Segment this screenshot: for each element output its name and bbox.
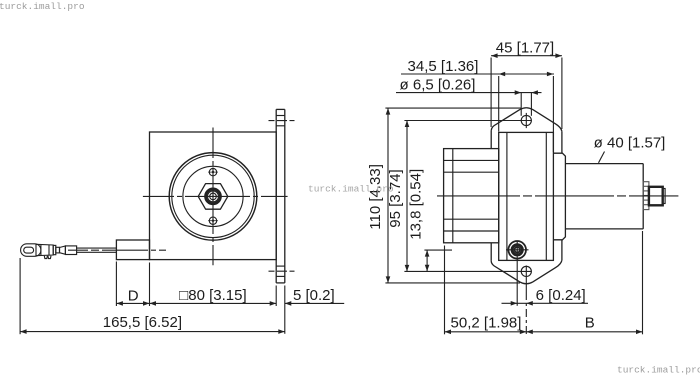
svg-text:□80 [3.15]: □80 [3.15] [179,287,246,304]
front view: drum cover inner circle [183,166,243,226]
dimension 45 [1.77] [491,40,562,130]
svg-text:ø 40 [1.57]: ø 40 [1.57] [594,135,666,152]
svg-text:34,5 [1.36]: 34,5 [1.36] [408,58,479,75]
dimension diameter 6,5 [0.26] [396,76,542,115]
side view: clamp plate [553,153,565,240]
svg-text:110 [4.33]: 110 [4.33] [367,164,384,230]
front view: rope swivel and cone [53,245,65,254]
svg-text:ø 6,5 [0.26]: ø 6,5 [0.26] [400,76,476,93]
dimension D [116,262,149,307]
svg-text:turck.imall.pro: turck.imall.pro [0,1,85,12]
dimension square 80 [150,286,277,307]
front view: vertical center line [212,128,214,266]
svg-text:13,8 [0.54]: 13,8 [0.54] [408,169,425,240]
front view: drum cover outer circles [169,153,257,241]
front view: flange top hole center mark [269,120,295,122]
front view: rope center line [68,249,166,251]
front view: M12 connector hex nut [198,184,228,210]
side view: connector thread stub [643,182,649,210]
dimension 110 [4.33] [367,108,521,283]
front view: screw bottom [208,216,218,226]
svg-text:B: B [585,314,595,331]
dimension 13,8 [0.54] [408,169,452,271]
front view: square housing body [150,132,277,260]
dimension 5 [0.2] [285,286,344,334]
side view: housing body [499,132,554,260]
front view: flange bottom hole center mark [269,270,295,272]
side view: drum cover ribbed [444,149,499,243]
front view: M12 connector knurled ring [206,189,221,204]
front view: screw top [208,167,218,177]
side view: flange plate outline [491,108,562,284]
dimension 34,5 [1.36] [401,58,554,152]
side view: M12 connector plug [649,187,665,206]
svg-text:50,2 [1.98]: 50,2 [1.98] [451,314,522,331]
side view: sensor cylinder [565,164,643,229]
svg-text:D: D [128,287,139,304]
front view: wire rope [77,248,117,252]
side view: center line [437,195,678,197]
front view: horizontal center line [143,195,288,197]
front view: rope ferrule [65,246,76,255]
svg-text:45 [1.77]: 45 [1.77] [496,40,554,57]
svg-text:turck.imall.pro: turck.imall.pro [617,365,700,375]
dimension 50,2 [1.98] [445,246,527,335]
front view: mounting flange edge view [276,109,285,283]
dimension 6 [0.24] [502,241,589,335]
dimension 165,5 [6.52] [20,258,285,334]
dimension 95 [3.74] [387,121,531,272]
front view: wire outlet block [116,240,149,260]
side view: wire outlet grommet [506,241,529,259]
side view: flange top hole [521,113,531,128]
svg-text:165,5 [6.52]: 165,5 [6.52] [103,314,182,331]
front view: snap hook clip [21,244,54,259]
side view: flange bottom hole [521,266,531,293]
svg-text:95 [3.74]: 95 [3.74] [387,169,404,227]
dimension B [526,231,642,334]
svg-text:turck.imall.pro: turck.imall.pro [308,184,394,195]
svg-text:6 [0.24]: 6 [0.24] [536,287,586,304]
dimension diameter 40 [1.57] [594,135,666,163]
svg-text:5 [0.2]: 5 [0.2] [293,287,335,304]
